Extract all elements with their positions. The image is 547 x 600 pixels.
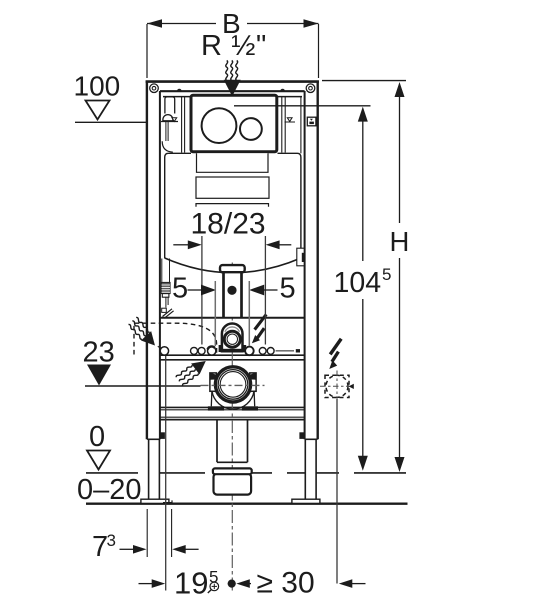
frame rail right [317, 81, 319, 440]
svg-text:R ½": R ½" [201, 30, 267, 62]
callout line frame top [322, 80, 406, 82]
svg-text:0: 0 [89, 421, 105, 453]
supply hose column [161, 259, 163, 283]
drain elbow outer [215, 367, 250, 402]
water level mark left [172, 118, 177, 122]
panel rect A [197, 153, 269, 172]
drain foot left [208, 406, 224, 410]
magnifier detail icon [210, 582, 219, 591]
inlet ring [224, 331, 240, 347]
centre dot 5-5 [227, 286, 236, 295]
flush channel cap [220, 265, 245, 272]
clip bump left on top bar [177, 89, 182, 91]
floor step mark [163, 500, 172, 502]
svg-text:3: 3 [107, 531, 116, 550]
water level mark right [287, 118, 292, 122]
wavy arrow drain [175, 355, 210, 386]
cistern bottom curve [165, 258, 301, 273]
svg-text:104: 104 [334, 267, 382, 299]
lightning bolt right [329, 338, 343, 356]
electrical box dashed square [325, 375, 349, 397]
cistern upper wall left [181, 97, 183, 153]
drain mounting strap [212, 391, 254, 409]
floor bend body [214, 474, 252, 495]
access box [191, 95, 277, 152]
foot left [141, 499, 169, 503]
inlet pads [219, 345, 223, 352]
finished floor line (level 0) [86, 472, 408, 474]
drain side ear right [250, 373, 256, 391]
dimension B line [147, 23, 216, 25]
frame top bar [146, 80, 319, 83]
level line 23 [85, 385, 201, 387]
leader from electrical box [336, 399, 338, 584]
crossbar low [160, 406, 305, 408]
corner screw right [306, 84, 315, 93]
floor bend lip [213, 468, 252, 474]
dashed service box [134, 323, 217, 354]
panel rect B [196, 177, 269, 198]
leg left [149, 439, 160, 499]
electrical box dashed circle [326, 375, 348, 397]
svg-text:23: 23 [83, 337, 115, 369]
svg-text:5: 5 [280, 273, 296, 305]
rail clamp tab left [160, 432, 165, 439]
wavy arrow left [127, 316, 160, 350]
centre dot [228, 580, 236, 588]
svg-text:100: 100 [74, 71, 121, 102]
crossbar mid1 [160, 317, 305, 319]
drain centre line horizontal [201, 384, 265, 386]
svg-text:≥ 30: ≥ 30 [257, 567, 315, 600]
arrow at dot [236, 579, 250, 588]
open triangle 0 [87, 451, 110, 470]
callout line flush plate [234, 105, 371, 107]
drain foot right [242, 406, 258, 410]
dimension 19'5 [139, 583, 153, 585]
cistern shoulder left [165, 153, 191, 258]
supply arrow down [224, 80, 241, 97]
clip bump right on top bar [280, 89, 285, 91]
leg right [305, 439, 316, 499]
extension lines bottom [146, 509, 148, 557]
dimension H line [399, 97, 401, 223]
svg-text:5: 5 [172, 273, 188, 305]
arrow at electrical leader [339, 579, 353, 588]
svg-text:19: 19 [174, 566, 208, 600]
open triangle 100 [86, 101, 110, 120]
stem foot corner [162, 141, 173, 152]
angle valve [165, 297, 167, 307]
stop valve dome [163, 115, 173, 121]
bracket under panel [196, 204, 269, 207]
valve stem [165, 122, 167, 142]
cistern upper wall right [281, 97, 283, 153]
braided hose coil [161, 282, 170, 293]
inlet elbow arch [222, 324, 243, 352]
foot right [292, 499, 320, 503]
filled triangle 23 [87, 365, 111, 386]
centre line vertical [231, 263, 233, 592]
crossbar mid2 [160, 354, 305, 356]
frame rail left [146, 81, 148, 440]
svg-text:H: H [390, 226, 410, 257]
cistern shoulder right [278, 153, 301, 258]
drain pipe down [216, 420, 218, 463]
level line 100 [75, 121, 146, 123]
svg-text:5: 5 [382, 265, 391, 284]
dimension B extension lines [146, 24, 148, 78]
hose lower cap [162, 294, 169, 298]
cistern top edge [163, 96, 302, 98]
clip right rail mid [297, 248, 304, 266]
flush button small [240, 118, 262, 140]
supply pipe top left [165, 97, 175, 114]
svg-text:18/23: 18/23 [191, 208, 266, 241]
drain side ear left [210, 373, 216, 391]
lightning bolt small [253, 313, 267, 330]
steam squiggles top [226, 61, 228, 81]
raw floor line [86, 503, 408, 505]
dimension 104 line [362, 121, 364, 261]
flush pipe channel walls [225, 272, 240, 318]
anchor hole row [160, 347, 168, 355]
inlet base bar [223, 349, 242, 353]
flush button large [202, 108, 237, 143]
svg-text:0–20: 0–20 [77, 474, 142, 506]
rail clamp tab right [299, 432, 304, 439]
corner screw left [150, 84, 159, 93]
icon on right rail [307, 117, 316, 126]
